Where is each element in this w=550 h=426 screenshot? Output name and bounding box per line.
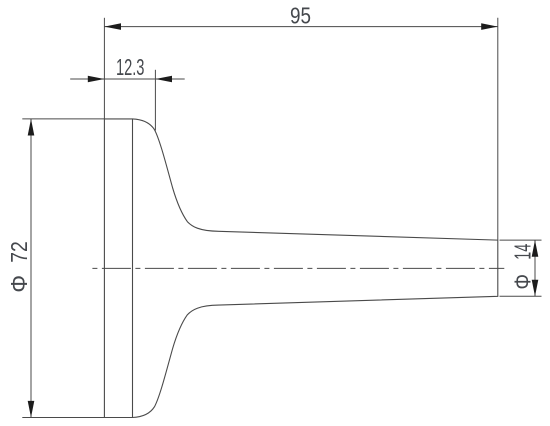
dimension line phi72 [30,119,32,418]
arrow 12.3 right [155,76,172,83]
svg-text:Φ: Φ [510,274,536,290]
extension line phi72 top [22,118,104,120]
extension line phi14 bottom [500,295,542,297]
extension line phi14 top [500,239,542,241]
arrow phi72 top [28,119,35,136]
dimension line phi14 [534,240,536,296]
svg-text:95: 95 [290,3,311,29]
svg-text:14: 14 [510,244,536,260]
arrow 12.3 left [88,76,105,83]
part outline (mouthpiece profile) [104,119,497,418]
arrow 95 left [104,23,121,30]
svg-text:12.3: 12.3 [116,54,145,80]
arrow phi14 top [532,240,539,257]
centerline [92,267,504,269]
svg-text:72: 72 [6,241,32,263]
arrow 95 right [481,23,498,30]
extension line 12.3 right [154,70,156,131]
arrow phi72 bottom [28,401,35,418]
dimension line 95 [104,26,497,28]
svg-text:Φ: Φ [6,275,32,293]
extension line 95 left [103,18,105,119]
dimension line 12.3 [70,78,185,80]
extension line phi72 bottom [22,417,104,419]
arrow phi14 bottom [532,280,539,297]
extension line 95 right [497,18,499,240]
rim/cup boundary line [132,119,134,418]
